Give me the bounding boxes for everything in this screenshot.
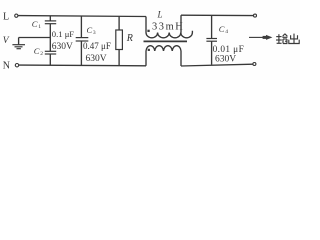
- svg-text:C: C: [87, 25, 93, 35]
- svg-text:0.01 μF: 0.01 μF: [213, 45, 245, 55]
- wire ground to C1/C2 midpoint: [19, 37, 51, 39]
- svg-text:4: 4: [225, 29, 228, 35]
- svg-text:2: 2: [40, 51, 43, 57]
- svg-text:33mH: 33mH: [152, 22, 184, 33]
- terminal output bottom circle: [253, 63, 256, 66]
- wire C4 bottom lead: [211, 41, 213, 64]
- wire bottom rail left segment: [19, 64, 146, 67]
- wire choke top left lead: [145, 17, 147, 33]
- svg-text:R: R: [126, 33, 133, 44]
- svg-text:0.47 μF: 0.47 μF: [83, 41, 111, 51]
- arrow to output: [249, 36, 264, 38]
- wire C4 top lead: [211, 16, 213, 39]
- capacitor C3: [76, 37, 89, 39]
- svg-text:630V: 630V: [215, 55, 236, 65]
- core line of choke: [144, 40, 188, 42]
- wire choke top right lead: [180, 15, 182, 32]
- wire C2 bottom to rail: [49, 54, 51, 65]
- inductor L top winding: [146, 31, 192, 38]
- svg-text:1: 1: [38, 24, 41, 30]
- wire choke bottom right lead: [180, 51, 182, 66]
- wire top rail left segment: [18, 15, 146, 18]
- terminal N circle: [15, 63, 18, 66]
- svg-text:L: L: [157, 10, 163, 20]
- svg-text:0.1 μF: 0.1 μF: [52, 29, 74, 39]
- svg-text:L: L: [3, 12, 9, 23]
- svg-text:C: C: [32, 19, 38, 29]
- label chu (Chinese output char 2): [289, 34, 299, 44]
- svg-text:630V: 630V: [52, 42, 73, 52]
- wire C3 bottom lead: [80, 41, 82, 66]
- wire top rail right segment: [181, 14, 254, 16]
- capacitor C4: [206, 38, 217, 40]
- svg-text:C: C: [34, 46, 40, 56]
- svg-text:630V: 630V: [86, 54, 107, 64]
- resistor R: [116, 30, 123, 50]
- terminal L circle: [15, 14, 18, 17]
- svg-text:C: C: [219, 24, 225, 34]
- wire choke bottom left lead: [145, 51, 147, 66]
- svg-text:V: V: [3, 36, 10, 46]
- wire R bottom lead: [118, 50, 120, 66]
- wire C1 bottom to C2 top (through ground tee): [49, 24, 51, 52]
- wire bottom rail right segment: [181, 64, 253, 66]
- wire R top lead: [118, 16, 120, 30]
- wire C3 top lead: [80, 16, 82, 38]
- capacitor C1: [49, 16, 51, 21]
- svg-text:N: N: [3, 61, 10, 72]
- label shu (Chinese output char 1): [276, 34, 287, 44]
- phase dot top winding: [147, 30, 149, 32]
- svg-text:3: 3: [93, 30, 96, 36]
- capacitor C2: [45, 50, 56, 52]
- inductor L bottom winding: [146, 46, 181, 51]
- phase dot bottom winding: [148, 49, 150, 51]
- terminal output top circle: [254, 14, 257, 17]
- ground: [18, 38, 20, 45]
